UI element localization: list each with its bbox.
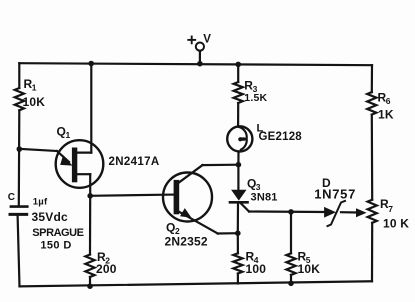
svg-text:10K: 10K	[23, 95, 46, 109]
svg-text:7: 7	[388, 204, 393, 214]
svg-text:2N2352: 2N2352	[165, 235, 208, 249]
svg-text:3N81: 3N81	[251, 192, 278, 204]
svg-text:GE2128: GE2128	[259, 131, 303, 143]
svg-text:1µf: 1µf	[33, 197, 48, 208]
svg-text:V: V	[203, 34, 211, 46]
svg-text:1.5K: 1.5K	[244, 92, 267, 104]
svg-text:200: 200	[96, 262, 117, 276]
svg-text:1: 1	[66, 130, 71, 140]
svg-text:1K: 1K	[378, 108, 394, 122]
svg-text:100: 100	[246, 262, 267, 276]
svg-text:10K: 10K	[298, 262, 321, 276]
svg-text:C: C	[8, 192, 15, 203]
svg-text:10 K: 10 K	[383, 217, 409, 231]
svg-text:2N2417A: 2N2417A	[109, 156, 160, 168]
svg-text:SPRAGUE: SPRAGUE	[32, 227, 83, 239]
svg-text:6: 6	[386, 96, 391, 106]
svg-text:150 D: 150 D	[40, 239, 71, 251]
svg-text:35Vdc: 35Vdc	[32, 210, 68, 224]
svg-text:1N757: 1N757	[314, 187, 356, 202]
svg-text:1: 1	[32, 83, 37, 93]
